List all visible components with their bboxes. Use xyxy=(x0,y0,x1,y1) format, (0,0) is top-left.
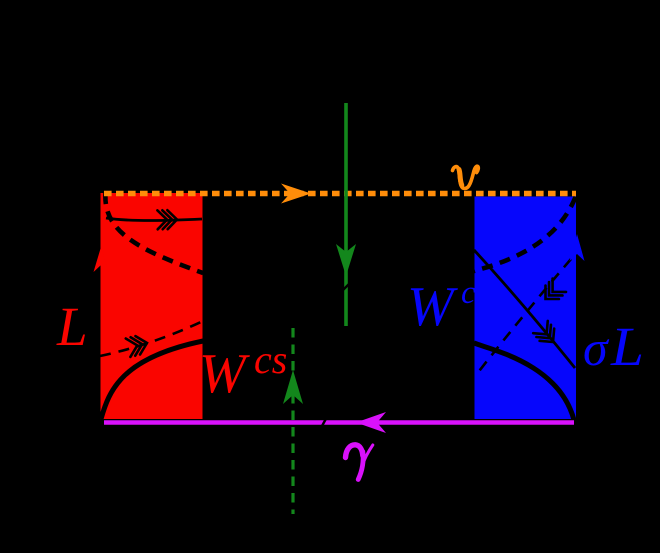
svg-text:cs: cs xyxy=(254,337,287,382)
chevrons on red top orbit xyxy=(157,210,177,229)
svg-text:W: W xyxy=(407,276,458,338)
red region L xyxy=(101,193,203,419)
curve: blue thick solid boundary xyxy=(474,343,574,420)
curve: blue thin dashed diagonal (pointing down-left) xyxy=(476,259,571,375)
chevrons on blue solid diagonal (pointing down-right) xyxy=(533,321,560,348)
green up arrowhead xyxy=(283,370,303,404)
green down arrowhead xyxy=(336,244,356,276)
green dashed vertical line xyxy=(291,328,294,514)
curve: red top solid orbit xyxy=(106,218,202,221)
chevrons on blue thin dashed diagonal xyxy=(539,278,566,305)
curve: blue thick dashed xyxy=(474,197,576,271)
chevrons on red lower dashed xyxy=(126,334,150,357)
svg-text:σ: σ xyxy=(583,320,610,376)
svg-text:L: L xyxy=(56,296,88,357)
green solid vertical line xyxy=(344,103,348,326)
svg-text:c: c xyxy=(461,275,476,311)
orange arrowhead xyxy=(281,184,311,204)
magenta left arrowhead xyxy=(356,412,386,433)
tick on green line xyxy=(342,283,350,291)
orange dashed line v xyxy=(104,191,576,196)
curve: red thick dashed xyxy=(105,193,203,273)
curve: red lower thin dashed xyxy=(100,321,203,356)
curve: blue solid diagonal xyxy=(474,250,575,368)
svg-text:L: L xyxy=(610,316,644,377)
label gamma xyxy=(346,445,373,480)
svg-text:W: W xyxy=(199,343,250,405)
blue arrowhead on right edge of sigma L xyxy=(570,234,585,261)
magenta line gamma xyxy=(104,420,574,425)
blue region sigma L xyxy=(475,197,577,420)
curve: red thick solid boundary W^cs xyxy=(101,341,203,419)
label v xyxy=(453,166,479,188)
red arrowhead on left edge of L xyxy=(94,247,109,272)
tick on magenta line xyxy=(322,415,328,426)
